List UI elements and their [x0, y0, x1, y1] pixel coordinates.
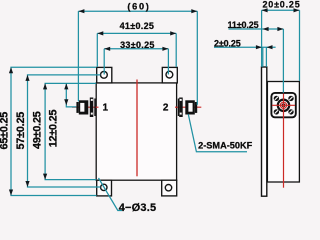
dim 12 line: [66, 83, 76, 107]
dim 41 line: [97, 32, 176, 34]
dim 49 line: [45, 83, 96, 179]
11 arrows: [263, 27, 269, 31]
65 arrows: [9, 67, 13, 73]
svg-text:11±0.25: 11±0.25: [228, 20, 259, 30]
screw holes: [274, 96, 294, 115]
33 arrows: [104, 47, 110, 51]
dim 33 ext left: [103, 49, 105, 75]
svg-text:4−Ø3.5: 4−Ø3.5: [119, 202, 157, 214]
dim (60) ext left: [77, 11, 79, 101]
hole bottom-left: [101, 184, 107, 190]
dim 2 line: [214, 46, 276, 48]
tab bottom-right: [162, 180, 177, 196]
12 arrows: [64, 83, 68, 89]
hole top-left: [101, 71, 108, 78]
svg-text:2-SMA-50KF: 2-SMA-50KF: [198, 141, 252, 151]
dim 33 ext right: [167, 49, 169, 75]
(60) arrows: [78, 9, 84, 13]
dim 41 ext right: [175, 33, 177, 67]
svg-text:1: 1: [103, 103, 109, 114]
svg-text:33±0.25: 33±0.25: [120, 40, 155, 50]
connector 1 red centerline: [72, 106, 99, 108]
SMA flange square: [271, 93, 295, 117]
DIMENSIONS (teal): [11, 10, 300, 210]
dim 11 line: [229, 28, 284, 30]
svg-text:65±0.25: 65±0.25: [0, 112, 10, 150]
dim 20 ext right: [299, 10, 301, 81]
dim 41 ext left: [96, 33, 98, 67]
hole bottom-right: [165, 185, 171, 191]
svg-text:57±0.25: 57±0.25: [15, 112, 27, 150]
2 arrows: [256, 45, 262, 49]
svg-text:12±0.25: 12±0.25: [48, 110, 60, 148]
svg-text:(60): (60): [127, 1, 150, 11]
side plate: [262, 67, 267, 196]
svg-text:2: 2: [163, 103, 169, 114]
49 arrows: [43, 83, 47, 89]
41 arrows: [97, 31, 103, 35]
leader 2-SMA-50KF: [188, 114, 247, 152]
dim (60) ext right: [196, 11, 198, 105]
dim 57 line: [28, 75, 101, 187]
coax center: [278, 100, 289, 111]
57 arrows: [25, 75, 29, 81]
svg-text:2±0.25: 2±0.25: [214, 38, 241, 48]
side body: [267, 82, 299, 183]
connector 2 (right SMA): [178, 98, 197, 118]
dim (60) line: [78, 10, 197, 12]
dim 20 ext left: [261, 10, 263, 67]
tab bottom-left: [97, 180, 112, 196]
dim 11 ext right: [282, 29, 284, 93]
body outline: [96, 83, 176, 180]
arrowheads: [9, 8, 300, 195]
connector 1 (left SMA): [76, 98, 95, 118]
connector 2 red centerline: [175, 106, 201, 108]
svg-text:20±0.25: 20±0.25: [262, 0, 300, 9]
dim 33 line: [104, 48, 168, 50]
svg-text:49±0.25: 49±0.25: [31, 111, 43, 149]
side red centerlines: [283, 94, 285, 188]
tab top-left: [97, 67, 112, 83]
tab top-right: [162, 67, 177, 83]
svg-text:41±0.25: 41±0.25: [120, 21, 155, 31]
dim 65 line: [11, 67, 97, 195]
dim 2 ext right: [265, 47, 267, 67]
leader 4-dia3.5: [99, 178, 123, 211]
hole top-right: [166, 71, 173, 78]
20 arrows: [262, 8, 268, 12]
dim 20 line: [262, 9, 300, 11]
red centerline front view: [136, 80, 138, 177]
dim 2 ext left: [262, 47, 264, 67]
